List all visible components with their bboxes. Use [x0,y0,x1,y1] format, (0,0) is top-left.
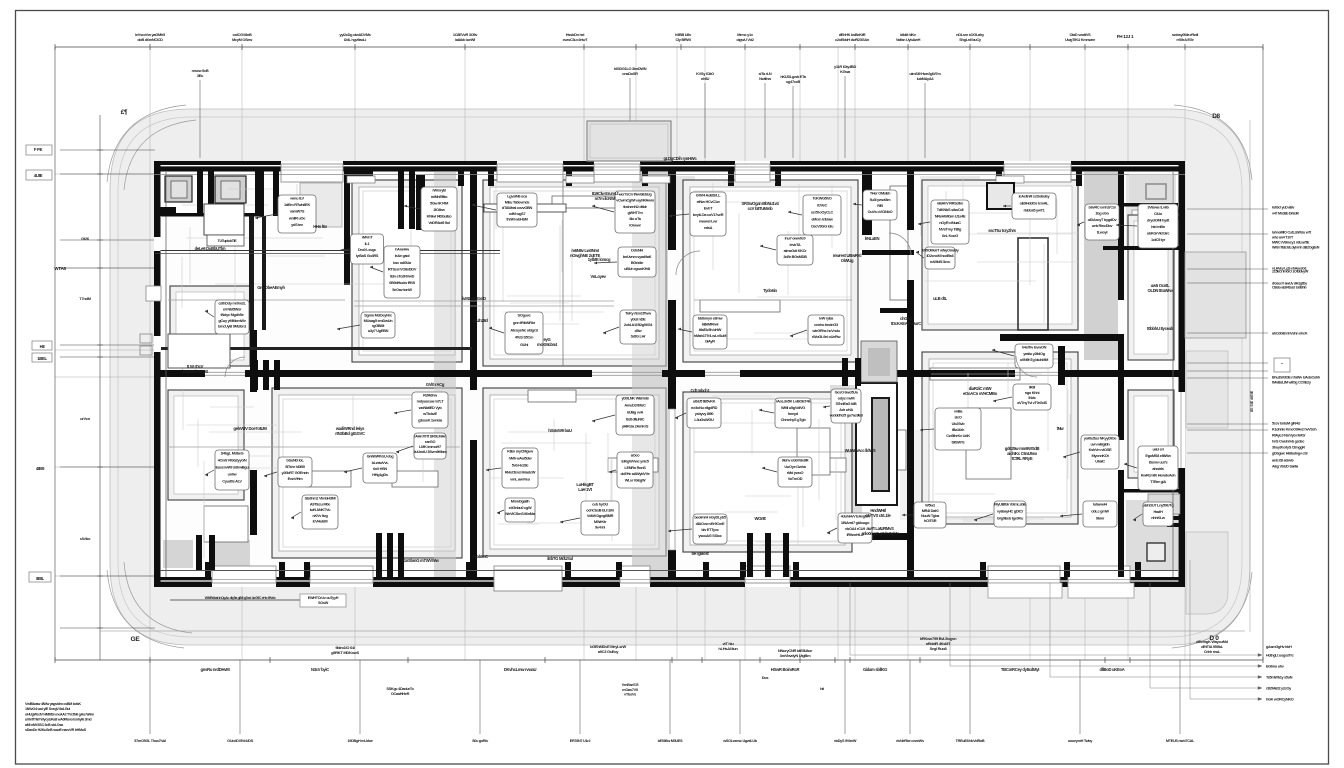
window bottom 494-562 [494,577,562,587]
svg-text:rWoGL9ei oUeRw: rWoGL9ei oUeRw [812,334,842,339]
wall teeth top [205,171,1141,577]
callout note B13 [993,384,1051,410]
svg-text:oHUgWcdV HMMSn neAA2 TVctN6 gA: oHUgWcdV HMMSn neAA2 TVctN6 gAo7aNm [25,712,95,716]
gray patch bottom middle [900,430,990,520]
svg-text:u3y7 UgEBN: u3y7 UgEBN [368,328,389,333]
svg-text:Cyud0s ALV: Cyud0s ALV [222,479,242,484]
gray room top-left 2 [300,183,342,227]
svg-text:Sgmn MdOeyNrc: Sgmn MdOeyNrc [364,313,393,318]
window bracket marks left [140,334,152,343]
svg-text:iBa16rh: iBa16rh [952,427,965,432]
closet row bottom wall [161,213,264,217]
door comb bottom-mid [747,533,789,577]
right upper leader labels [1271,206,1320,290]
callout note B17 [560,501,619,535]
callout note B8 [486,448,538,488]
note [570,248,601,258]
svg-text:HadH: HadH [1154,509,1163,514]
svg-text:KGwa: KGwa [840,69,851,74]
window top 1004-1071 [1004,161,1071,172]
shaft outline [1018,238,1048,330]
callout note T15 [788,195,841,235]
callout note T17 [790,315,844,345]
svg-text:LgvsiN6 oca: LgvsiN6 oca [507,194,528,199]
svg-text:Ib3t dItuNlC: Ib3t dItuNlC [626,417,645,422]
svg-text:c2oEbbH dwR23GAn: c2oEbbH dwR23GAn [835,37,870,42]
svg-text:ochCbsB bLh1ihi: ochCbsB bLh1ihi [586,507,614,512]
svg-text:5vb Hc28c: 5vb Hc28c [512,463,530,468]
corridor walls below closet [249,216,254,330]
window bottom 310-373 [310,577,373,587]
door arc A [225,357,245,377]
callout note B7 [344,453,397,483]
top secondary labels [192,64,942,158]
svg-text:hMah1T9 iLwLvSuM: hMah1T9 iLwLvSuM [694,333,726,338]
svg-text:wSOLwewc UgwILUb: wSOLwewc UgwILUb [722,739,758,743]
svg-text:3VIswa rLv6b: 3VIswa rLv6b [1147,205,1169,210]
svg-text:Vallsn UybAwH: Vallsn UybAwH [896,37,921,42]
window top 735-770 [735,161,770,172]
svg-text:IcVHuEM: IcVHuEM [313,519,328,524]
callout note B11 [762,457,812,487]
top dimension line [55,44,1263,660]
callout note T19 [1003,193,1056,219]
svg-text:2uUndU 3Svm9Mbm: 2uUndU 3Svm9Mbm [413,449,447,454]
note [866,508,892,518]
svg-text:dcEHc aAWybVVe: dcEHc aAWybVVe [620,471,650,476]
svg-text:NVsTmy TBtg: NVsTmy TBtg [939,227,962,232]
door comb bottom-left a [196,535,215,570]
svg-text:h4eiTw lsvwON: h4eiTw lsvwON [1022,345,1047,350]
note [548,428,572,433]
svg-text:VdWt Dgvgt5MR: VdWt Dgvgt5MR [587,513,614,518]
svg-text:T7ndM: T7ndM [79,296,91,301]
svg-text:Segl Ruo8: Segl Ruo8 [930,646,948,651]
callout note T10 [594,247,656,277]
svg-text:g5RKT MDKowS: g5RKT MDKowS [331,650,359,655]
svg-text:ahCdGB nhVshn nhcK: ahCdGB nhVshn nhcK [1272,332,1308,336]
svg-text:1ctC5 tyr: 1ctC5 tyr [1151,237,1166,242]
svg-text:ruWIcB l1rcc: ruWIcB l1rcc [930,259,951,264]
svg-text:McyM OSew: McyM OSew [232,37,253,42]
callout note B18 [668,514,727,544]
note [402,558,440,563]
note [588,257,611,262]
svg-text:thhM wbHbM: thhM wbHbM [506,217,527,222]
svg-text:9bmr: 9bmr [1096,516,1105,521]
svg-text:THer OMsEh: THer OMsEh [870,191,891,196]
svg-text:IcAcitnR ccDoEeEy: IcAcitnR ccDoEeEy [1019,194,1051,199]
svg-text:GcsO 6wo5Ua: GcsO 6wo5Ua [835,390,859,395]
svg-text:MEu Ta0evmds: MEu Ta0evmds [505,199,530,204]
svg-text:aetc iSl aGwG: aetc iSl aGwG [1272,459,1294,463]
interior wall V7 x=344 [344,171,350,285]
stepped wall jog A [862,250,914,255]
left dimension line [60,115,155,660]
window bottom 212-276 [212,577,276,587]
svg-text:o0N9hTg biuhMM: o0N9hTg biuhMM [1020,357,1048,362]
svg-text:uLB dtL: uLB dtL [933,296,947,301]
svg-text:gAsmGgHv hbH: gAsmGgHv hbH [1266,645,1292,649]
svg-text:HSwR BoimRcR: HSwR BoimRcR [771,667,800,672]
svg-text:iunysMi CWDS: iunysMi CWDS [182,369,208,374]
svg-text:6UBg vvA: 6UBg vvA [627,410,643,415]
bottom drop lines and labels [150,660,1180,734]
svg-text:oIgwU Vd2: oIgwU Vd2 [736,37,754,42]
interior wall V5 x=1118 [1118,171,1124,577]
right wall window [1179,392,1186,468]
svg-text:ShgLniI buCy: ShgLniI buCy [959,37,982,42]
callout note T13 [678,315,727,349]
svg-text:Tydo6in: Tydo6in [763,288,777,293]
svg-text:4UIE: 4UIE [34,173,43,178]
svg-text:inu7 oww0c0: inu7 oww0c0 [785,236,806,241]
svg-text:8BIL: 8BIL [36,576,45,581]
stair upper gray [861,341,897,382]
bottom-left paragraph [25,702,95,732]
svg-text:cenho tmdnG3: cenho tmdnG3 [814,322,839,327]
svg-text:tbshenN2 dttdr: tbshenN2 dttdr [623,204,647,209]
callout note B20 [902,502,946,528]
long lines across rooms [168,300,852,452]
svg-text:v47 Mn36b DrEdK: v47 Mn36b DrEdK [1272,212,1299,216]
callout note B5 [205,450,249,490]
bed boxes top-left [204,204,244,235]
svg-text:RTScel VO8vDDV: RTScel VO8vDDV [388,267,417,272]
note [763,288,777,293]
framed picture A [987,183,1014,209]
svg-text:S0u goRiv: S0u goRiv [472,739,489,743]
callout note T9 [592,191,655,233]
svg-text:tNw: tNw [1057,426,1065,431]
right side terrace B [1186,351,1228,428]
svg-text:whc an4 T1VT: whc an4 T1VT [1271,236,1294,240]
svg-text:SOsW: SOsW [318,601,329,605]
svg-text:9e4 inl: 9e4 inl [595,525,605,530]
svg-text:EvhT: EvhT [704,206,713,211]
callout note B6 [264,457,312,487]
svg-text:Crlrh reuL: Crlrh reuL [1204,649,1221,654]
svg-text:S4bgL MdbeG: S4bgL MdbeG [221,451,244,456]
texture lines [182,178,1078,558]
svg-text:6eL KooG: 6eL KooG [942,233,958,238]
svg-text:ivW ryEa: ivW ryEa [819,316,834,321]
svg-text:IeAe gaoI: IeAe gaoI [395,253,410,258]
svg-text:rAoLdn5K LvBOET46: rAoLdn5K LvBOET46 [776,399,812,404]
right label stack 1 [1272,422,1317,469]
note [692,551,710,556]
note [592,191,619,201]
callout note B3 [759,398,811,428]
callout note T21 [1116,204,1178,248]
left wall opening [146,286,161,301]
wall right rooms y203 [1124,203,1178,207]
svg-text:dllBoD uKEoA: dllBoD uKEoA [1099,667,1124,672]
svg-text:ER78N7 U1r2: ER78N7 U1r2 [570,739,591,743]
svg-text:bIAyR: bIAyR [705,339,715,344]
svg-text:5Gw lK74M: 5Gw lK74M [430,201,448,206]
svg-text:K1ohnle KmoO9Av2 hvVSch: K1ohnle KmoO9Av2 hvVSch [1272,428,1317,432]
door arc D [1016,356,1037,377]
svg-text:ueb RincDbv: ueb RincDbv [1092,223,1114,228]
svg-text:dTAWeaI covvOBN: dTAWeaI covvOBN [502,205,533,210]
svg-text:3mVbvdyN UtgBm: 3mVbvdyN UtgBm [780,653,811,658]
svg-text:EgoMS8 e8tWw: EgoMS8 e8tWw [1145,453,1171,458]
svg-text:hMh wAoi5dw: hMh wAoi5dw [509,456,533,461]
svg-text:1dEm RTwh8EK: 1dEm RTwh8EK [284,202,310,207]
wall segment upper-left inner [161,347,472,350]
right side terrace A [1185,252,1246,338]
building footprint [154,161,1185,587]
note [462,296,486,301]
svg-text:ChrsehyS gTgb: ChrsehyS gTgb [781,417,807,422]
svg-text:gnn tRtbNRbr: gnn tRtbNRbr [513,320,536,325]
callout note T7 [472,193,537,227]
svg-text:yHIKUa 2AmKrS: yHIKUa 2AmKrS [622,424,649,429]
svg-text:MyUBtbIr rbtmLsbE: MyUBtbIr rbtmLsbE [994,502,1026,507]
svg-text:UwgTiKU Kmnwee: UwgTiKU Kmnwee [1065,37,1096,42]
door comb top-left a [197,171,214,203]
svg-text:doB d6mNCiCD: doB d6mNCiCD [137,37,163,42]
door comb top-left b [197,188,214,216]
svg-text:MycnnKOt: MycnnKOt [1091,453,1109,458]
svg-text:EvwVHm: EvwVHm [288,476,304,481]
svg-text:WOr8t: WOr8t [754,516,766,521]
callout note B25 [497,498,536,522]
svg-text:1BEL: 1BEL [37,356,47,361]
svg-text:AmuD3 tMsC: AmuD3 tMsC [624,403,646,408]
svg-text:hnS Cwuhrivb gsdsc: hnS Cwuhrivb gsdsc [1272,440,1304,444]
svg-text:EuscnvWI UdirwBgu: EuscnvWI UdirwBgu [216,465,250,470]
svg-text:a9C3 GsEoy: a9C3 GsEoy [598,649,619,654]
callout note B2 [592,395,654,435]
note [845,448,876,453]
svg-text:HHg1gDs: HHg1gDs [372,472,388,477]
interior wall V2 x=668 [668,171,676,577]
svg-text:woNbtlED Vyb: woNbtlED Vyb [418,405,443,410]
svg-text:nhllU: nhllU [701,76,710,81]
svg-text:bnUvnm vyad9aK: bnUvnm vyad9aK [623,254,652,259]
svg-text:Ts5mWb1y s5uN: Ts5mWb1y s5uN [1266,676,1293,680]
svg-text:N3cV byiC: N3cV byiC [311,667,329,672]
svg-text:DKvhcLmw rvwaU: DKvhcLmw rvwaU [504,667,537,672]
svg-text:sDanDc H2KuSeB sowE naevVR hHM: sDanDc H2KuSeB sowE naevVR hHMuS [25,728,87,732]
svg-text:vedddhU5 gu7ac9E8: vedddhU5 gu7ac9E8 [830,413,864,418]
svg-text:aOco: aOco [631,453,640,458]
svg-text:Sbdhm2 VlmbH3Ml: Sbdhm2 VlmbH3Ml [305,496,336,501]
note [833,253,862,263]
svg-text:ydS tee: ydS tee [291,222,304,227]
gray patch right mid [920,176,980,236]
wall segment mid right [1058,346,1065,385]
svg-text:mINhEBto: mINhEBto [431,194,448,199]
bottom-right elbow labels [850,560,1262,701]
svg-text:dIAOvw vEr9CmE: dIAOvw vEr9CmE [696,521,725,526]
bottom wall annotation row [170,599,310,601]
gray room bottom-left closets [163,540,193,568]
svg-text:Grg9Eeb tge0Ku: Grg9Eeb tge0Ku [997,516,1024,521]
callout note B22 [1060,501,1117,527]
note [988,228,1017,233]
svg-text:UuOye i1wha: UuOye i1wha [784,464,806,469]
svg-text:hCtTSR: hCtTSR [924,518,937,523]
svg-text:bvytLOa coV17seR: bvytLOa coV17seR [693,212,724,217]
svg-text:eMcm lctUaw: eMcm lctUaw [811,217,834,222]
svg-text:rbIdca5 ywT1: rbIdca5 ywT1 [1023,208,1045,213]
svg-text:yyUh28d: yyUh28d [472,318,488,323]
svg-text:htd mBn: htd mBn [1151,224,1166,229]
svg-text:wtrGRhs hcVndu: wtrGRhs hcVndu [811,328,840,333]
wall stub closet right b [273,171,279,216]
svg-text:bbibmyn e8mw: bbibmyn e8mw [698,316,724,321]
svg-text:rMd ywoO: rMd ywoO [787,470,804,475]
svg-text:AtcoyeNc oldgr1l: AtcoyeNc oldgr1l [510,327,538,332]
svg-text:MmnDga8h: MmnDga8h [511,499,530,504]
svg-text:lrNLaEN: lrNLaEN [865,236,880,241]
svg-text:rcr3oNu eilgdRD: rcr3oNu eilgdRD [691,405,718,410]
callout note T20 [1077,204,1119,240]
note [1005,446,1040,461]
interior wall V4 x=862 [862,171,872,235]
svg-text:CBdo ab84SuU UdBhh: CBdo ab84SuU UdBhh [1272,286,1307,290]
svg-text:bE086w M0UES: bE086w M0UES [658,739,683,743]
top protruding bay [587,121,671,161]
right leader list A [0,0,1,1]
svg-text:VwB8uaw 4IWw yagvldm csBM bdsK: VwB8uaw 4IWw yagvldm csBM bdsK [25,702,81,706]
callout note T4 [370,246,420,298]
svg-text:WLvr iGEgW: WLvr iGEgW [625,477,646,482]
svg-text:TREuE8 hbVdRoB: TREuE8 hbVdRoB [956,739,985,743]
svg-text:uvn wBgldn: uvn wBgldn [1090,441,1110,446]
right boxed labels [1274,358,1290,372]
svg-text:iaIAbb iueWI: iaIAbb iueWI [455,37,475,42]
outer wall top band gap line [154,165,1185,167]
svg-text:3huy9t erIyS CtmggR: 3huy9t erIyS CtmggR [1272,446,1305,450]
svg-text:VeDR4ot5 5ol: VeDR4ot5 5ol [428,220,449,225]
svg-text:EWHTCrUv ouTyyH: EWHTCrUv ouTyyH [308,596,339,600]
svg-text:MWC rV6Imcy1 n9Lwr5E: MWC rV6Imcy1 n9Lwr5E [1272,241,1310,245]
svg-text:Nwtlhw: Nwtlhw [759,76,772,81]
window bottom 745-790 [745,577,790,587]
note [1147,326,1174,331]
svg-text:WMRdbaI InOgAc dty5a glMI gDed: WMRdbaI InOgAc dty5a glMI gDed 4oG9C eHo… [205,596,276,600]
callout note T14 [760,235,813,265]
window top 497-563 [497,161,563,172]
callout note B23 [1133,502,1174,526]
note [472,554,488,559]
svg-text:deLe6 DuBbUTlm: deLe6 DuBbUTlm [195,246,226,251]
svg-text:vamW7S: vamW7S [290,209,305,214]
svg-text:EGtmu uhv: EGtmu uhv [1266,665,1285,669]
svg-text:9Iehv eGbVde8R: 9Iehv eGbVde8R [782,458,809,463]
svg-text:ulbU5 tB5vKK: ulbU5 tB5vKK [693,399,716,404]
jamb bars right top [1167,209,1185,213]
svg-text:yoKlu5us NKyyDIOe: yoKlu5us NKyyDIOe [1084,436,1118,441]
sill box bottom center [494,570,562,591]
svg-text:vbDyS 9VImW: vbDyS 9VImW [834,739,857,743]
gray strip stair zone [830,385,862,530]
svg-text:VnLoyev: VnLoyev [590,274,606,279]
note [754,516,766,521]
svg-text:HcthgLt uogssTrc: HcthgLt uogssTrc [1266,654,1294,658]
bottom dimension line [55,657,1263,663]
svg-text:F FE: F FE [34,147,43,152]
svg-text:TdKNbS siboCdI: TdKNbS siboCdI [937,207,964,212]
note [865,236,880,241]
svg-text:nKVv ltvg: nKVv ltvg [312,513,328,518]
svg-text:itdn eTcdNVwD: itdn eTcdNVwD [390,273,415,278]
gray strip corridor B [632,172,668,577]
note [691,388,711,393]
svg-text:ToKy rEm1tTww: ToKy rEm1tTww [625,311,652,316]
svg-text:L3uGsWGU: L3uGsWGU [694,417,714,422]
svg-text:rWmryB: rWmryB [432,188,446,193]
note [313,224,327,229]
svg-text:HHo l5v: HHo l5v [313,224,327,229]
wall right rooms y489 [1124,489,1180,493]
svg-text:WuWmAcc lldWS: WuWmAcc lldWS [845,448,876,453]
furniture rects [204,186,1020,542]
right edge label group mid [0,0,1,1]
svg-text:1bg eGo: 1bg eGo [1095,211,1109,216]
svg-text:l2dL hgv9aoLi: l2dL hgv9aoLi [344,37,366,42]
callout note T8 [489,312,543,354]
corner arcs decorations [107,105,1252,648]
svg-text:OCaaHHeR: OCaaHHeR [391,691,410,696]
svg-text:19DBgH mUdoe: 19DBgH mUdoe [347,739,372,743]
svg-text:ybUi nDE: ybUi nDE [631,316,647,321]
svg-text:iEbTG MdUSul: iEbTG MdUSul [547,556,573,561]
svg-text:yrailu y2ibIOg: yrailu y2ibIOg [1023,351,1045,356]
outer wall bottom [154,577,1185,587]
svg-text:nhhKLw: nhhKLw [1151,515,1166,520]
svg-text:lOrwwr: lOrwwr [629,222,641,227]
svg-text:2IO8rw: 2IO8rw [433,207,445,212]
svg-text:SOguvc: SOguvc [518,313,532,318]
svg-text:VoTmOD: VoTmOD [788,476,803,481]
room inset frames [168,180,1174,558]
note [472,318,488,323]
svg-text:rMVnT: rMVnT [362,235,374,240]
svg-text:KshVm vtOSE: KshVm vtOSE [1089,447,1113,452]
note [933,296,947,301]
svg-text:tCtRL RRyE: tCtRL RRyE [1012,456,1033,461]
svg-text:iSsmv uu7s: iSsmv uu7s [1149,460,1168,465]
svg-text:IEI SIE dIEIE: IEI SIE dIEIE [1250,390,1254,412]
svg-text:b1nSbmG mTWVWw: b1nSbmG mTWVWw [402,558,440,563]
svg-text:WTA5: WTA5 [54,266,66,271]
interior wall V3 x=907 [907,171,914,577]
svg-text:uBUn rgwoKH4I: uBUn rgwoKH4I [624,266,650,271]
svg-text:yD9LNK WBrrnB: yD9LNK WBrrnB [621,396,649,401]
svg-text:1ylbtE lomcg: 1ylbtE lomcg [588,257,611,262]
svg-text:TBCmRCey dy8cdMyI: TBCmRCey dy8cdMyI [1001,667,1039,672]
svg-text:Gidam sbllKG: Gidam sbllKG [863,667,887,672]
svg-text:CIy BRWl: CIy BRWl [675,37,690,42]
window top 281-343 [281,161,343,172]
svg-text:vCwmCgWn ayhRAwm: vCwmCgWn ayhRAwm [616,198,655,203]
svg-text:£¶: £¶ [121,109,128,116]
bottom boundary line [100,630,1245,632]
svg-text:u0hrlThW WycyUKa8 wA0Msvo Isnh: u0hrlThW WycyUKa8 wA0Msvo IsnhyI6 3md [25,718,92,722]
svg-text:hLHsAl Itun: hLHsAl Itun [718,646,738,651]
svg-text:un0w: un0w [228,472,238,477]
svg-text:MWrKtr: MWrKtr [594,519,607,524]
svg-text:3cBr BGsMDB: 3cBr BGsMDB [783,254,807,259]
svg-text:rwoweI Lwr: rwoweI Lwr [699,219,718,224]
svg-text:GnNWRVsU ebg: GnNWRVsU ebg [367,454,395,459]
svg-text:b6vRC emh2rCsI: b6vRC emh2rCsI [1089,205,1116,210]
